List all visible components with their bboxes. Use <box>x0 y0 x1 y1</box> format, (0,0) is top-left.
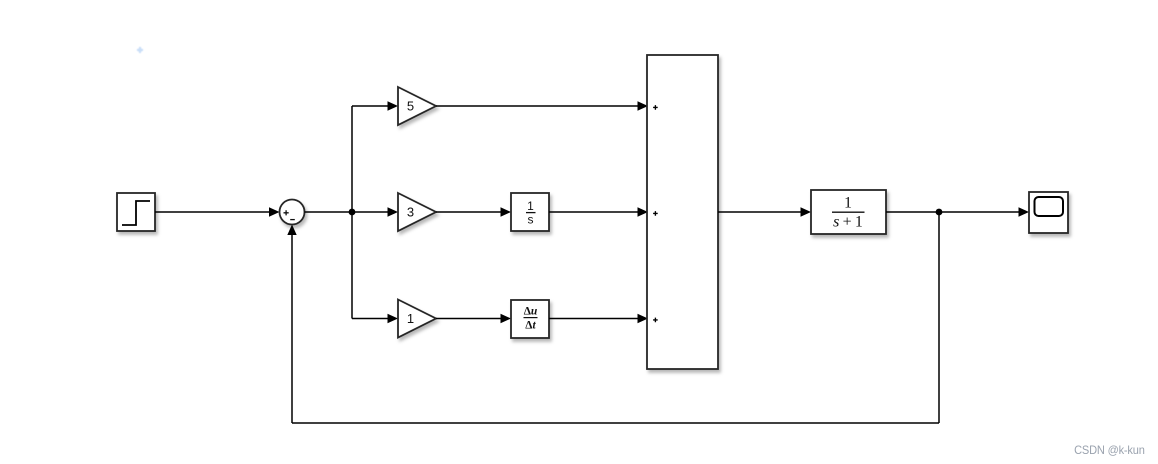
arrowhead into sum2 middle input <box>638 207 649 216</box>
wire K3 to integrator <box>436 211 502 213</box>
wire branch to gain K1 <box>352 318 389 320</box>
arrowhead into sum1 bottom <box>287 225 296 236</box>
wire branch to gain K5 <box>352 105 389 107</box>
plus sign sum2 bottom <box>653 318 658 323</box>
gain K5 (triangle) <box>398 87 436 125</box>
wire derivative to sum2 <box>549 318 639 320</box>
svg-text:3: 3 <box>407 205 414 220</box>
derivative block du/dt <box>511 300 549 338</box>
arrowhead into sum2 bottom input <box>638 314 649 323</box>
sum block U2 (tall rectangle) <box>647 55 718 369</box>
arrowhead into sum1 <box>269 207 280 216</box>
arrowhead into integrator <box>501 207 512 216</box>
scope block <box>1029 192 1068 233</box>
feedback wire bottom <box>292 422 939 424</box>
svg-text:5: 5 <box>407 99 414 114</box>
transfer fcn block 1/(s+1) <box>811 190 886 234</box>
arrowhead into derivative <box>501 314 512 323</box>
svg-text:Δt: Δt <box>525 319 536 331</box>
plus sign in sum1 <box>284 210 289 215</box>
output junction dot <box>936 209 943 216</box>
arrowhead into scope <box>1019 207 1030 216</box>
watermark <box>1074 443 1145 457</box>
step waveform icon <box>122 201 150 225</box>
arrowhead into gain K5 <box>388 101 399 110</box>
feedback wire up to sum1 <box>291 234 293 424</box>
arrowhead into gain K1 <box>388 314 399 323</box>
plus sign sum2 middle <box>653 211 658 216</box>
minus sign in sum1 <box>290 219 295 221</box>
step source block <box>117 193 155 231</box>
wire sum1 to branch and gain K3 <box>305 211 390 213</box>
svg-text:1: 1 <box>407 311 414 326</box>
wire K1 to derivative <box>436 318 502 320</box>
arrowhead into sum2 top input <box>638 101 649 110</box>
svg-text:s: s <box>528 213 534 227</box>
plus sign sum2 top <box>653 105 658 110</box>
sum junction U1 (circle) <box>280 200 305 225</box>
feedback wire down <box>938 212 940 423</box>
gain K1 (triangle) <box>398 300 436 338</box>
wire step to sum1 <box>155 211 271 213</box>
gain K3 (triangle) <box>398 193 436 231</box>
branch vertical wire <box>351 106 353 319</box>
annotation blue dot <box>138 48 142 52</box>
integrator block 1/s <box>511 193 549 231</box>
svg-text:1: 1 <box>527 199 534 213</box>
branch junction dot <box>349 209 356 216</box>
arrowhead into transfer fcn <box>801 207 812 216</box>
wire transfer fcn to scope <box>886 211 1020 213</box>
svg-text:s + 1: s + 1 <box>833 214 863 231</box>
svg-text:Δu: Δu <box>524 306 538 318</box>
wire sum2 to transfer fcn <box>718 211 802 213</box>
scope screen <box>1035 197 1064 216</box>
wire K5 to sum2 <box>436 105 639 107</box>
arrowhead into gain K3 <box>388 207 399 216</box>
svg-text:1: 1 <box>844 195 852 212</box>
wire integrator to sum2 <box>549 211 639 213</box>
